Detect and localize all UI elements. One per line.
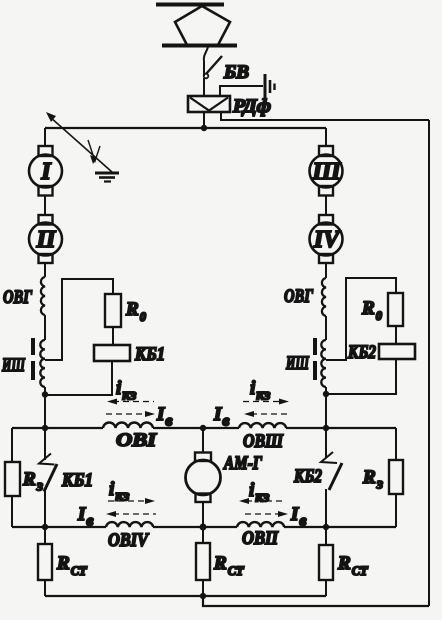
winding ОВIII on upper bus xyxy=(239,423,286,428)
switch БВ hinge circle xyxy=(204,74,209,79)
resistor Rз (left) xyxy=(5,462,20,496)
arrowhead i кз upper left xyxy=(107,399,117,405)
svg-text:RСТ: RСТ xyxy=(213,553,245,578)
wire Rо to КБ2 contactor xyxy=(395,326,397,344)
svg-text:Iв: Iв xyxy=(213,404,230,430)
motor III top brush xyxy=(319,146,333,156)
wire bottom bus connecting Rст resistors xyxy=(45,595,326,597)
motor II bottom brush xyxy=(39,254,53,263)
inductive shunt ИШ winding (right) xyxy=(321,340,326,387)
arrowhead I в lower right xyxy=(278,511,288,517)
svg-text:КБ1: КБ1 xyxy=(134,344,165,365)
wire upper bus segment middle xyxy=(153,427,239,429)
node Rст middle bottom xyxy=(200,593,206,599)
node upper bus right xyxy=(323,425,329,431)
arrow I в upper right (dashed, points left) xyxy=(251,413,288,415)
resistor Rо (right) xyxy=(388,293,403,326)
contact КБ1 lower stub xyxy=(44,491,46,527)
wire РДФ top tap to chassis xyxy=(220,86,263,96)
svg-text:I: I xyxy=(40,159,52,185)
svg-text:RСТ: RСТ xyxy=(56,553,88,578)
wire lower bus segment middle xyxy=(153,526,237,528)
svg-text:Iв: Iв xyxy=(156,404,173,430)
wire bottom return to right side loop xyxy=(203,596,429,606)
svg-text:БВ: БВ xyxy=(223,62,249,83)
svg-text:iкз: iкз xyxy=(249,480,269,506)
wire top bus xyxy=(45,127,326,129)
wire top bus left drop xyxy=(44,128,46,147)
motor II top brush xyxy=(39,215,53,225)
wire lower bus to Rст (middle) xyxy=(202,527,204,543)
svg-text:КБ2: КБ2 xyxy=(293,466,322,487)
svg-text:ОВIV: ОВIV xyxy=(108,530,149,551)
wire lower bus to Rст (right) xyxy=(325,527,327,545)
node lower bus left xyxy=(42,524,48,530)
wire Rст right to bottom bus xyxy=(325,580,327,596)
wire ИШ to node (right) xyxy=(325,387,327,428)
machine АМ-Г armature xyxy=(186,460,221,495)
wire lower bus segment right xyxy=(284,526,396,528)
contact КБ2 lower stub xyxy=(325,489,327,527)
wire КБ1 to node (left) xyxy=(45,361,112,395)
wire КБ2 to node (right) xyxy=(326,359,396,394)
surge arrow shaft xyxy=(50,117,112,172)
svg-text:Rз: Rз xyxy=(22,469,43,495)
resistor Rо (left) xyxy=(105,294,121,327)
svg-text:ОВП: ОВП xyxy=(242,528,279,549)
chassis ground (rotated) bar 2 xyxy=(269,80,272,93)
relay РДФ box xyxy=(188,96,230,112)
surge arrow to ground: arrowhead at bus xyxy=(46,112,56,122)
svg-text:Iв: Iв xyxy=(77,504,94,530)
wire upper bus segment right xyxy=(286,427,396,429)
node upper bus left xyxy=(42,425,48,431)
earth ground bar 1 xyxy=(95,172,119,175)
pantograph base bar xyxy=(162,44,237,48)
svg-text:КБ1: КБ1 xyxy=(61,470,93,491)
arrowhead I в upper left xyxy=(145,411,155,417)
svg-text:ОВI: ОВI xyxy=(116,430,157,451)
wire top bus right drop xyxy=(325,128,327,147)
wire Rз to lower bus (right) xyxy=(395,494,397,527)
wire Rз to lower bus (left) xyxy=(11,496,13,527)
motor IV bottom brush xyxy=(319,254,333,263)
machine АМ-Г top brush xyxy=(195,453,211,462)
svg-text:R0: R0 xyxy=(125,299,147,324)
ИШ core bar lower (left) xyxy=(31,361,35,380)
motor I bottom brush xyxy=(39,186,53,196)
wire right side vertical return xyxy=(428,120,430,606)
arrow I в upper left (dashed, points right) xyxy=(106,413,147,415)
motor III bottom brush xyxy=(319,186,333,196)
contact КБ2 blade xyxy=(329,463,342,490)
arrowhead i кз upper right xyxy=(279,399,289,405)
wire ОВГ to ИШ (right) xyxy=(325,316,327,340)
ИШ core bar lower (right) xyxy=(313,361,317,380)
node at РДФ / top bus junction xyxy=(201,125,207,131)
wire upper bus to Rз (right) xyxy=(395,428,397,460)
resistor Rст (middle) xyxy=(196,543,210,580)
resistor Rз (right) xyxy=(389,460,403,494)
svg-text:III: III xyxy=(311,159,342,185)
chassis ground (rotated) bar 3 xyxy=(273,84,275,91)
wire motor II to ОВГ xyxy=(44,263,46,277)
wire lower bus to Rст (left) xyxy=(44,527,46,544)
wire ОВГ to ИШ (left) xyxy=(44,315,46,340)
node at shunt branch return (left) xyxy=(42,391,48,397)
shunt branch tap wire (left) xyxy=(45,279,113,360)
ИШ core bar upper (right) xyxy=(313,338,317,355)
svg-text:iкз: iкз xyxy=(250,378,270,404)
svg-text:КБ2: КБ2 xyxy=(347,342,376,363)
svg-text:II: II xyxy=(36,227,57,253)
motor IV armature xyxy=(310,223,343,256)
svg-text:Rз: Rз xyxy=(362,467,383,493)
svg-text:ОВГ: ОВГ xyxy=(284,286,313,307)
node lower bus right xyxy=(323,524,329,530)
lightning zigzag xyxy=(88,140,100,161)
wire pantograph to БВ xyxy=(204,47,208,76)
winding ОВГ (right) xyxy=(322,278,326,316)
wire upper bus to machine xyxy=(202,428,204,453)
wire motor IV to ОВГ xyxy=(325,263,327,278)
chassis ground (rotated) bar 1 xyxy=(264,74,267,98)
wire machine to lower bus xyxy=(202,502,204,527)
svg-text:RСТ: RСТ xyxy=(337,553,369,578)
arrow i кз upper right (dashed, points right) xyxy=(243,401,281,403)
contactor КБ1 box xyxy=(94,345,130,361)
contact КБ2 tick xyxy=(321,452,337,463)
arrowhead i кз lower right xyxy=(239,498,249,504)
wire БВ to РДФ xyxy=(203,78,205,96)
node at shunt branch return (right) xyxy=(323,391,329,397)
winding ОВII on lower bus xyxy=(237,522,284,527)
arrowhead i кз lower left xyxy=(145,498,155,504)
svg-text:R0: R0 xyxy=(361,298,383,323)
earth ground bar 2 xyxy=(99,176,115,179)
inductive shunt ИШ winding (left) xyxy=(40,340,45,387)
svg-text:Iв: Iв xyxy=(290,504,307,530)
motor II armature xyxy=(29,223,62,256)
resistor Rст (right) xyxy=(319,545,333,580)
arrow I в lower left (dashed, points left) xyxy=(113,513,156,515)
wire motor I to motor II xyxy=(44,196,46,217)
svg-text:ОВГ: ОВГ xyxy=(3,287,32,308)
machine АМ-Г bottom brush xyxy=(196,494,211,503)
arrow i кз lower right (dashed, points left) xyxy=(246,500,285,502)
winding ОВI on upper bus xyxy=(103,422,153,428)
contact КБ1 blade xyxy=(44,464,57,492)
ИШ core bar upper (left) xyxy=(31,338,35,355)
shunt branch tap wire (right) xyxy=(326,278,396,360)
pantograph frame (pentagon) xyxy=(175,6,230,45)
motor III armature xyxy=(310,155,343,188)
motor I top brush xyxy=(39,146,53,156)
arrowhead I в upper right xyxy=(244,411,254,417)
svg-text:ИШ: ИШ xyxy=(285,353,309,374)
contact КБ2 upper stub xyxy=(325,428,327,458)
resistor Rст (left) xyxy=(38,544,52,580)
svg-text:iкз: iкз xyxy=(116,378,136,404)
wire upper bus segment left xyxy=(12,427,103,429)
wire ИШ to node (left) xyxy=(44,387,46,428)
wire Rст middle to bottom bus xyxy=(202,580,204,596)
lightning arrowhead xyxy=(90,155,97,164)
winding ОВГ (left) xyxy=(41,277,45,315)
earth ground bar 3 xyxy=(104,180,111,182)
arrow I в lower right (dashed, points right) xyxy=(245,513,280,515)
svg-text:АМ-Г: АМ-Г xyxy=(223,453,262,474)
contactor КБ2 box xyxy=(379,344,415,359)
contact КБ1 upper stub xyxy=(44,428,46,460)
svg-text:РДф: РДф xyxy=(232,96,271,117)
pantograph top contact bar xyxy=(156,3,224,7)
wire Rо to КБ1 contactor xyxy=(112,327,114,345)
wire Rст left to bottom bus xyxy=(44,580,46,596)
svg-text:ОВШ: ОВШ xyxy=(243,431,283,452)
contact КБ1 tick xyxy=(39,454,55,465)
node upper bus center xyxy=(200,425,206,431)
winding ОВIV on lower bus xyxy=(106,522,153,527)
arrow i кз upper left (dashed, points left) xyxy=(113,401,154,403)
svg-text:IV: IV xyxy=(313,227,341,253)
node lower bus center xyxy=(200,524,207,531)
wire РДФ output to right side loop xyxy=(221,112,429,120)
wire lower bus segment left xyxy=(12,526,106,528)
wire РДФ to top bus xyxy=(203,112,205,128)
switch БВ blade xyxy=(206,56,222,74)
svg-text:ИШ: ИШ xyxy=(1,355,25,376)
arrow i кз lower left (dashed, points right) xyxy=(108,500,146,502)
arrowhead I в lower left xyxy=(106,511,116,517)
motor IV top brush xyxy=(319,215,333,225)
relay РДФ internal V xyxy=(190,98,228,111)
motor I armature xyxy=(29,155,62,188)
wire motor III to motor IV xyxy=(325,196,327,217)
wire upper bus to Rз (left) xyxy=(11,428,13,462)
